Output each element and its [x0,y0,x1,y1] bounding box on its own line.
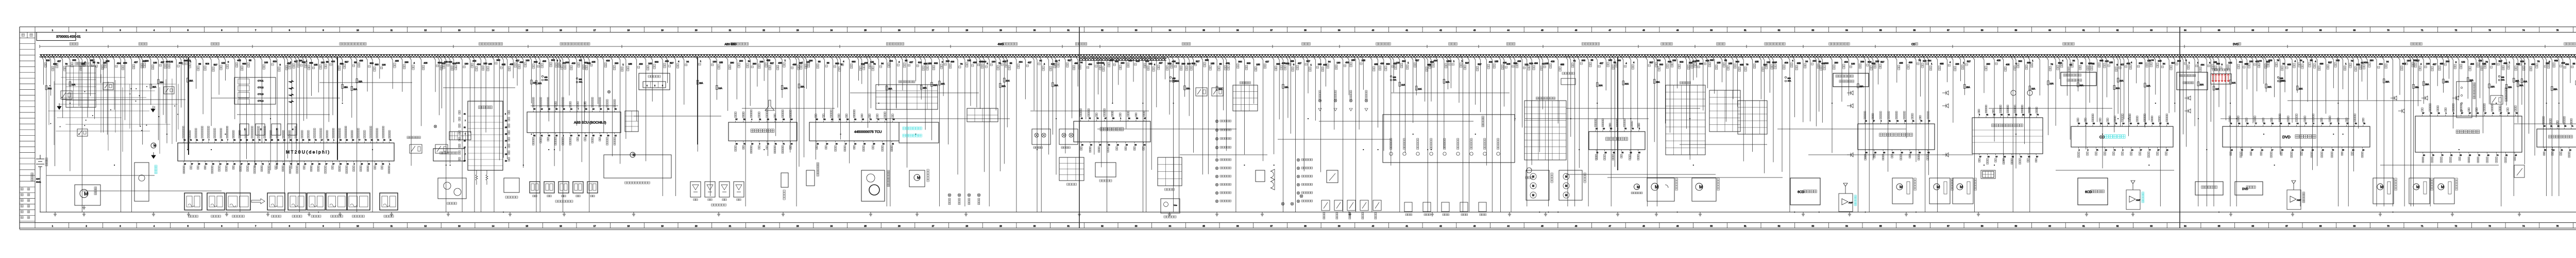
svg-text:434: 434 [2379,63,2383,66]
wire [2224,56,2226,120]
wire [2053,56,2056,126]
svg-text:4: 4 [505,147,506,149]
svg-text:66: 66 [2251,29,2254,31]
wire [400,56,402,92]
wire [1513,56,1515,121]
thick bundle x3140 [1617,57,1618,170]
svg-text:53: 53 [607,108,609,110]
svg-text:68: 68 [2319,225,2322,228]
wire [1595,56,1597,160]
wire [53,56,55,166]
svg-text:48: 48 [1642,225,1645,228]
cluster indicator 9 [1497,152,1500,155]
wire [850,92,979,93]
wire [1369,56,1372,212]
svg-text:29: 29 [767,119,769,121]
svg-text:79: 79 [998,62,1001,64]
wire [1251,56,1254,104]
indicator lamp 2 [1297,167,1299,169]
svg-text:AMP: AMP [2136,199,2141,201]
svg-text:23: 23 [2231,149,2233,151]
svg-text:DVD: DVD [2242,188,2248,191]
svg-text:21: 21 [2550,125,2552,127]
svg-text:41: 41 [1405,29,1408,31]
wire [326,56,329,122]
airbag warning lamp [607,90,610,93]
front wiper motor [1647,178,1674,201]
wire [156,56,158,140]
wire [2001,56,2004,162]
wire [112,56,114,110]
page seam line 1 [1079,27,1080,228]
svg-text:25A: 25A [2553,88,2557,91]
wire [123,56,125,120]
wire [161,56,163,115]
svg-text:55: 55 [308,139,310,141]
svg-text:29: 29 [226,163,228,165]
svg-text:19: 19 [661,29,664,31]
svg-text:45: 45 [816,119,818,121]
svg-text:27: 27 [1910,152,1912,154]
indicator lamp 5 [1297,191,1299,194]
audio AC display assembly box 2 [2061,72,2096,86]
wire [2574,56,2576,196]
svg-text:298: 298 [759,60,764,63]
svg-text:405: 405 [864,62,868,64]
svg-text:33: 33 [1135,29,1138,31]
svg-text:43: 43 [1473,29,1476,31]
svg-text:405: 405 [2006,63,2010,66]
speaker driver 4 [1942,104,1948,108]
svg-text:62: 62 [2238,123,2240,125]
wire [2027,56,2030,212]
wire [1097,128,1236,130]
wire [2421,56,2424,104]
svg-text:190: 190 [1336,61,1341,64]
svg-text:155: 155 [314,63,318,66]
svg-text:655: 655 [1561,63,1565,66]
wire [2381,56,2384,206]
svg-text:15: 15 [311,163,313,165]
ground [509,212,512,216]
svg-text:498: 498 [2216,62,2221,65]
wire [1096,56,1098,94]
svg-text:46: 46 [1575,225,1578,228]
svg-text:20A: 20A [2268,86,2272,88]
svg-text:390: 390 [1659,63,1664,66]
left margin column [35,33,36,223]
svg-text:41: 41 [541,135,543,137]
wire [1461,56,1463,212]
fuse [2383,79,2385,83]
wire [561,56,563,212]
wire [997,56,1000,171]
svg-text:79: 79 [365,139,367,141]
svg-text:55: 55 [93,61,95,63]
wire [865,56,868,128]
svg-text:53: 53 [1812,29,1815,31]
svg-text:390: 390 [1128,59,1132,62]
svg-text:12: 12 [424,225,427,228]
fuse [2213,86,2215,90]
cluster indicator 3 [1416,152,1419,155]
wire [2118,56,2121,126]
svg-text:20: 20 [695,225,698,228]
svg-text:19: 19 [751,143,753,145]
circuit breaker S/B [2498,75,2500,77]
svg-text:10A: 10A [1418,88,1422,90]
fuse [2117,78,2119,82]
circuit breaker S/B [1785,76,1786,78]
svg-text:63: 63 [883,143,885,145]
svg-text:12: 12 [424,29,427,31]
ground bus line [40,212,2576,213]
svg-text:29: 29 [2246,123,2248,125]
svg-text:79: 79 [65,63,67,66]
svg-text:80: 80 [240,139,242,141]
wire [1110,56,1112,104]
svg-text:40: 40 [790,143,792,145]
svg-text:14: 14 [505,140,507,142]
svg-text:132: 132 [456,62,460,64]
antenna amp 3 roof [2292,181,2296,190]
svg-text:72: 72 [190,139,192,141]
wire [1871,56,1873,160]
cluster indicator 6 [1456,152,1460,155]
svg-text:34: 34 [1328,60,1331,63]
wire [660,56,663,196]
svg-text:67: 67 [2347,123,2349,125]
right stop lamp [1291,202,1294,205]
wire [587,56,589,212]
svg-text:663: 663 [534,60,538,63]
svg-text:71: 71 [743,143,745,145]
fog lamp 4 [977,193,980,197]
svg-text:527: 527 [1307,60,1311,62]
svg-text:M: M [2441,185,2444,189]
wire [2057,56,2060,79]
svg-text:79: 79 [290,163,292,165]
svg-text:3: 3 [662,85,663,87]
wire [319,82,412,83]
svg-text:527: 527 [1465,61,1469,64]
svg-text:67: 67 [2461,112,2463,115]
svg-text:60: 60 [1090,144,1092,146]
wire [1876,56,1878,85]
fuse [69,82,71,86]
wire [2435,56,2437,86]
wire [893,56,896,108]
svg-text:10A: 10A [2146,85,2150,87]
svg-text:48: 48 [2292,149,2294,151]
position/turn lamp 10 [1215,200,1218,202]
wire [44,56,46,212]
wire [2196,56,2198,206]
svg-text:Vcc: Vcc [1174,204,1177,206]
svg-text:498: 498 [1909,61,1913,64]
svg-text:7: 7 [578,108,579,110]
wire [1425,56,1428,212]
svg-text:2: 2 [269,163,270,165]
wire [448,56,450,164]
svg-text:14: 14 [492,225,495,228]
front wiper motor [1651,183,1658,190]
svg-text:55: 55 [1055,60,1058,62]
svg-text:CD: CD [1911,43,1916,46]
starter box [75,185,100,205]
wire [1063,56,1065,153]
svg-text:132: 132 [1396,61,1400,64]
svg-text:74: 74 [2096,149,2098,151]
wire [987,56,989,206]
svg-text:66: 66 [2280,123,2282,125]
svg-text:190: 190 [483,62,487,65]
svg-text:ABS EBD: ABS EBD [725,43,737,46]
wire [2122,56,2124,119]
svg-text:40: 40 [1372,29,1375,31]
svg-text:33: 33 [817,143,819,145]
svg-text:56: 56 [2281,149,2283,151]
wire [1442,56,1444,149]
wire [2310,56,2313,170]
svg-text:21: 21 [2167,123,2169,125]
AC actuator unit 1 [2373,178,2394,204]
ground [1905,212,1908,216]
svg-text:403: 403 [606,59,610,62]
svg-text:25A: 25A [344,86,348,88]
wire [1687,56,1690,160]
svg-text:20A: 20A [353,88,358,90]
svg-text:45: 45 [276,163,278,165]
svg-text:S/B: S/B [1393,76,1397,78]
svg-text:34: 34 [2423,154,2425,156]
svg-text:77: 77 [2255,123,2257,125]
wire [1456,56,1459,103]
injector 2 [256,124,265,135]
wire [2056,170,2174,171]
wire [868,56,871,108]
svg-text:64: 64 [2184,29,2187,31]
svg-text:74: 74 [2522,225,2525,228]
fuel pump motor [151,143,156,148]
svg-text:10A: 10A [718,87,722,90]
wire [725,56,728,111]
wire [2022,56,2025,144]
svg-text:20A: 20A [2120,79,2124,82]
motor [1957,184,1963,190]
wire [1149,56,1151,170]
fuse [356,79,358,83]
motor [2377,184,2383,190]
indicator lamp 3 [1297,175,1299,178]
wire [1750,56,1753,152]
instrument dimmer unit [1161,199,1180,213]
svg-text:78: 78 [2020,156,2022,158]
svg-text:70: 70 [2015,114,2017,116]
ground [152,212,155,216]
wire [1846,56,1849,95]
svg-text:655: 655 [1374,63,1378,66]
svg-text:10: 10 [357,225,359,228]
wire [2146,56,2149,120]
light sensor [1095,163,1116,177]
wire [2104,56,2107,98]
svg-text:427: 427 [1298,62,1302,64]
wire [182,56,184,162]
svg-text:51: 51 [743,119,745,121]
svg-text:76: 76 [1632,128,1634,130]
svg-text:12: 12 [2261,149,2263,151]
ground [1508,212,1511,216]
svg-text:155: 155 [1875,60,1879,63]
svg-text:72: 72 [262,163,264,165]
svg-text:47: 47 [1144,118,1146,120]
wire [856,56,859,80]
coolant temp sensor [288,193,306,210]
svg-text:663: 663 [2554,59,2558,62]
wire [838,56,841,139]
ground [916,212,919,216]
svg-text:10A: 10A [1599,84,1603,87]
svg-text:CYL3: CYL3 [258,93,264,95]
svg-text:190: 190 [1923,60,1927,62]
wire [1777,128,1906,130]
svg-text:18: 18 [628,29,630,31]
svg-text:11: 11 [391,29,393,31]
svg-text:427: 427 [1159,61,1163,64]
svg-text:527: 527 [1880,61,1885,63]
position/turn lamp 8 [1215,183,1218,186]
intake manifold pressure sensor [347,193,370,210]
svg-text:15A: 15A [1656,81,1660,84]
wire [2391,56,2393,206]
svg-text:527: 527 [670,61,674,64]
wire [941,56,943,96]
wire [1839,56,1842,102]
wire [1529,56,1532,165]
svg-text:50: 50 [548,135,550,137]
svg-text:10A: 10A [2232,82,2236,84]
svg-text:190: 190 [992,60,996,63]
fuse [931,83,933,87]
svg-text:46: 46 [383,139,385,141]
svg-text:290: 290 [1121,62,1125,64]
lamp [1035,133,1039,137]
ground [717,212,720,216]
wire [2456,56,2459,98]
svg-text:80: 80 [2272,123,2274,125]
speaker driver d2 [2184,109,2191,113]
svg-text:55: 55 [2080,62,2083,64]
wire [1039,56,1041,212]
svg-text:655: 655 [1290,60,1294,62]
wire [1808,56,1810,121]
svg-text:390: 390 [2019,60,2023,62]
relay [103,83,113,90]
wire [618,56,620,164]
svg-text:49: 49 [2477,112,2479,115]
page seam line 2 [2179,27,2180,228]
rearview reserve box [2177,72,2208,90]
injector 3 [272,124,281,135]
svg-text:28: 28 [2557,125,2560,127]
wire [743,56,745,206]
fuse [2047,81,2049,85]
motor [2413,184,2419,190]
wire [962,56,965,206]
svg-text:10A: 10A [2469,79,2473,82]
svg-text:163: 163 [1851,62,1855,65]
wire [1306,56,1308,93]
svg-text:427: 427 [57,60,61,62]
wire [237,114,330,115]
relay: lamp relay 2 [1212,88,1223,96]
wire [79,56,82,212]
wire [2519,56,2522,105]
svg-text:48: 48 [736,143,738,145]
svg-text:53: 53 [2460,154,2462,156]
relay: main relay [61,91,72,99]
wire [2499,56,2501,206]
svg-text:37: 37 [1270,29,1273,31]
wire [1546,56,1549,206]
svg-text:1: 1 [647,85,648,87]
svg-text:55: 55 [2573,62,2575,65]
svg-text:403: 403 [1844,61,1849,63]
svg-text:67: 67 [1995,156,1997,158]
wire [634,116,721,117]
svg-text:7: 7 [227,139,228,141]
svg-text:190: 190 [1318,63,1322,66]
svg-text:67: 67 [2140,149,2142,151]
audio AC display assembly box (left) [1833,73,1869,87]
wire [194,56,196,89]
wire [2473,56,2476,118]
wire [2010,56,2013,212]
svg-text:S/B: S/B [1788,77,1791,79]
wire [451,56,454,122]
wire [1628,56,1631,158]
wire [1705,56,1708,88]
part number box 3700001-K00-01 [37,33,76,41]
wire [1116,56,1118,85]
fuse [2551,87,2553,91]
wire [460,56,462,212]
buckle switch [2514,165,2524,178]
svg-text:5: 5 [1639,128,1640,130]
fog lamp 2 [958,193,961,197]
svg-text:16: 16 [560,225,562,228]
svg-text:498: 498 [340,62,344,65]
svg-text:34: 34 [1805,60,1808,62]
svg-text:290: 290 [2370,59,2374,62]
AC actuator 2 [1929,178,1950,204]
wire [1105,56,1107,212]
svg-text:29: 29 [1874,152,1876,154]
svg-text:16: 16 [2123,123,2125,125]
svg-text:50: 50 [1710,225,1713,228]
svg-text:405: 405 [778,62,782,64]
svg-text:78: 78 [265,139,267,141]
wire [1353,56,1356,212]
wire [1767,56,1770,93]
wire [574,56,577,126]
ABS module outline [604,155,671,178]
svg-text:33: 33 [2438,112,2440,115]
svg-text:M: M [1699,184,1703,189]
fog lamp 3 [968,193,971,197]
svg-text:75: 75 [2263,123,2265,125]
